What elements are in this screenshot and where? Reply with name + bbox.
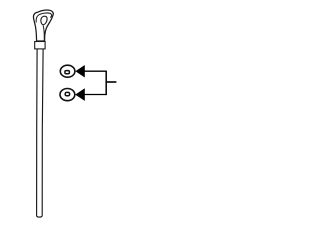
O-ring 2 inner: [65, 92, 69, 95]
arrowhead 1: [75, 65, 84, 78]
O-ring 1 outer: [60, 65, 75, 77]
handle stem inner contour line: [43, 26, 44, 41]
handle inner rim line: [36, 13, 51, 22]
bracket stub to label: [107, 81, 117, 83]
bracket vertical line: [105, 71, 107, 96]
leader line 2: [85, 94, 107, 96]
arrowhead 2: [75, 88, 85, 101]
handle hole: [41, 16, 47, 24]
collar: [35, 42, 45, 49]
O-ring 2 outer: [60, 89, 75, 101]
dipstick handle outer outline: [33, 10, 53, 41]
O-ring 1 inner: [65, 71, 70, 74]
leader line 1: [85, 70, 107, 72]
rod (dipstick blade) with rounded bottom: [37, 49, 44, 217]
